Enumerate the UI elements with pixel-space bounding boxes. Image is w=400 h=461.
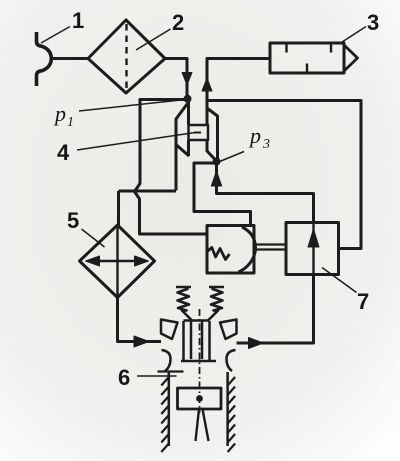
label 2 leader	[136, 29, 171, 50]
engine 6 valve chamber	[181, 321, 216, 362]
heat exchanger 5 through line	[116, 226, 118, 297]
wire: valve 7 down to engine outlet	[237, 275, 314, 344]
flow arrow up in valve 7	[308, 229, 319, 247]
wire: cross link to venturi wall	[119, 190, 177, 193]
svg-text:7: 7	[357, 289, 369, 314]
venturi 4 right channel wall	[207, 140, 217, 161]
flow arrow up p3	[211, 171, 221, 186]
svg-text:4: 4	[57, 140, 70, 165]
flow arrow right inlet	[134, 336, 149, 347]
filter 2 body	[88, 20, 165, 93]
svg-text:3: 3	[262, 137, 270, 152]
engine 6 piston	[178, 388, 222, 409]
diaphragm actuator spring	[207, 248, 230, 260]
engine 6 left valve spring	[176, 287, 192, 321]
svg-text:1: 1	[67, 115, 74, 130]
air intake bell 1	[37, 32, 52, 86]
label 7 leader	[322, 268, 357, 293]
flow arrow down	[182, 73, 192, 86]
engine 6 piston pin	[196, 395, 203, 402]
label 1 leader	[41, 27, 70, 44]
label p3 leader	[219, 152, 245, 163]
valve 7 through line	[312, 223, 314, 275]
svg-text:1: 1	[72, 8, 84, 33]
flow arrow right outlet	[249, 338, 264, 349]
label 5 leader	[82, 229, 105, 247]
svg-text:p: p	[53, 101, 66, 126]
svg-text:3: 3	[367, 10, 379, 35]
engine 6 right head lip	[227, 350, 236, 371]
wire: p1 branch left and down to actuator	[135, 100, 208, 235]
svg-text:5: 5	[67, 208, 79, 233]
venturi 4 left lower chamfer	[177, 145, 190, 156]
wire: long right link to valve 7	[207, 101, 361, 249]
heat exchanger 5 double arrow	[99, 260, 135, 262]
venturi 4 left channel wall	[187, 99, 190, 156]
engine 6 cylinder walls	[169, 372, 228, 446]
engine 6 right valve spring	[208, 287, 224, 321]
muffler 3 body	[270, 43, 344, 73]
label 4 leader	[77, 133, 195, 151]
filter 2 dashed element	[125, 24, 127, 90]
diaphragm actuator body	[207, 226, 254, 274]
wire: heat exchanger to engine inlet	[118, 298, 162, 342]
engine 6 left port	[161, 320, 178, 340]
label p1 leader	[79, 100, 186, 112]
wire: bell to filter	[50, 57, 88, 60]
venturi 4 left outer wall	[176, 104, 188, 191]
engine 6 right port	[220, 320, 237, 340]
node p1 junction	[184, 95, 192, 103]
label 3 leader	[339, 27, 366, 45]
engine 6 wall hatching left	[161, 377, 169, 452]
wire: p3 suction line to valve 7	[217, 162, 314, 223]
engine 6 deck line	[158, 370, 184, 372]
venturi 4 throat	[189, 125, 209, 140]
engine 6 connecting rod	[196, 409, 209, 441]
actuator rod	[254, 245, 287, 250]
wire: fuel channel to actuator	[194, 163, 251, 226]
heat exchanger 5 body	[80, 225, 155, 298]
svg-text:p: p	[248, 123, 261, 148]
svg-text:2: 2	[172, 10, 184, 35]
muffler 3 outlet cone	[345, 46, 358, 71]
venturi 4 right outer wall	[208, 109, 218, 160]
wire: down to heat exchanger 5	[117, 191, 120, 226]
node p3 junction	[213, 158, 221, 166]
engine 6 left head lip	[162, 350, 171, 371]
svg-text:6: 6	[118, 365, 130, 390]
wire: filter to down drop	[165, 59, 187, 100]
wire: ejector exhaust up to muffler	[207, 59, 270, 126]
engine 6 wall hatching right	[228, 377, 236, 452]
engine 6 axis line	[199, 309, 201, 413]
diaphragm membrane	[239, 227, 256, 272]
label 6 leader	[137, 375, 177, 377]
venturi 4 jet dash	[194, 132, 201, 134]
valve 7 body	[286, 223, 339, 275]
muffler 3 baffle ticks	[287, 44, 332, 72]
flow arrow up	[202, 78, 212, 91]
